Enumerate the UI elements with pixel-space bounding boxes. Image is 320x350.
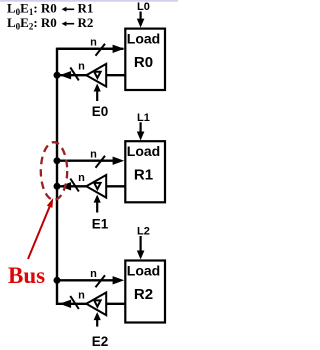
enable arrow E1 bbox=[96, 202, 98, 213]
register R1 box bbox=[125, 141, 165, 202]
wire R2 output to bus (arrow) bbox=[60, 300, 72, 308]
tri-state buffer E1 bbox=[86, 175, 106, 198]
svg-text:R2: R2 bbox=[78, 15, 94, 30]
svg-text:E0: E0 bbox=[92, 104, 109, 119]
equation arrow 1 bbox=[65, 8, 74, 10]
svg-text:n: n bbox=[78, 61, 85, 73]
junction dot R1 input bbox=[54, 157, 61, 164]
svg-text:R2: R2 bbox=[134, 286, 153, 303]
svg-text:n: n bbox=[90, 268, 97, 280]
junction dot R0 output bbox=[54, 72, 61, 79]
wire buffer E2 to register bbox=[106, 303, 125, 305]
junction dot R2 input bbox=[54, 277, 61, 284]
svg-text:Load: Load bbox=[127, 263, 160, 279]
svg-text:R1: R1 bbox=[134, 167, 153, 184]
wire L1 load arrow bbox=[140, 122, 142, 134]
equation arrow 2 bbox=[65, 23, 74, 25]
bus width slash R2 output bbox=[70, 296, 79, 309]
enable arrow E0 bbox=[96, 91, 98, 102]
bus width slash R1 output bbox=[70, 179, 79, 192]
wire R2 input from bus bbox=[57, 279, 115, 281]
wire buffer E1 to register bbox=[106, 185, 125, 187]
bus width slash R2 input bbox=[96, 275, 106, 287]
svg-text:L1: L1 bbox=[137, 112, 150, 124]
tri-state buffer E0 bbox=[86, 64, 106, 87]
svg-text:Load: Load bbox=[127, 31, 160, 47]
tri-state buffer E2 bbox=[86, 293, 106, 316]
bus width slash R1 input bbox=[96, 156, 106, 168]
wire R0 input from bus bbox=[57, 48, 115, 50]
wire buffer E0 to register bbox=[106, 74, 125, 76]
svg-text:n: n bbox=[90, 149, 97, 161]
svg-text:R0: R0 bbox=[134, 54, 153, 71]
wire R1 input from bus bbox=[57, 159, 115, 161]
svg-text:n: n bbox=[78, 172, 85, 184]
bus wire (vertical with top corner to R0 input and bottom corner to R2 output) bbox=[57, 49, 124, 304]
bus callout arrow (red) bbox=[28, 205, 51, 260]
enable arrow E2 bbox=[96, 319, 98, 327]
wire R0 output to bus bbox=[59, 74, 87, 76]
wire L2 load arrow bbox=[140, 236, 142, 253]
buffer inner symbol E1 bbox=[94, 183, 100, 189]
top border strip bbox=[0, 0, 178, 2]
bus width slash R0 input bbox=[96, 44, 106, 56]
bus width slash R0 output bbox=[70, 67, 79, 80]
wire R1 output to bus bbox=[59, 185, 87, 187]
register R2 box bbox=[125, 261, 165, 323]
svg-text:R1: R1 bbox=[78, 0, 94, 15]
svg-text:L0E2: R0: L0E2: R0 bbox=[7, 15, 57, 32]
svg-text:n: n bbox=[90, 37, 97, 49]
wire L0 load arrow bbox=[140, 12, 142, 22]
junction dot R1 output bbox=[54, 183, 61, 190]
buffer inner symbol E2 bbox=[94, 300, 100, 306]
svg-text:E2: E2 bbox=[92, 334, 109, 349]
buffer inner symbol E0 bbox=[94, 72, 100, 78]
svg-text:Bus: Bus bbox=[8, 263, 45, 288]
svg-text:L2: L2 bbox=[137, 226, 150, 238]
svg-text:E1: E1 bbox=[92, 217, 109, 232]
svg-text:Load: Load bbox=[127, 143, 160, 159]
svg-text:n: n bbox=[78, 289, 85, 301]
register R0 box bbox=[125, 29, 165, 90]
bus highlight ellipse (red dashed) bbox=[41, 142, 67, 200]
svg-text:L0: L0 bbox=[137, 1, 150, 13]
